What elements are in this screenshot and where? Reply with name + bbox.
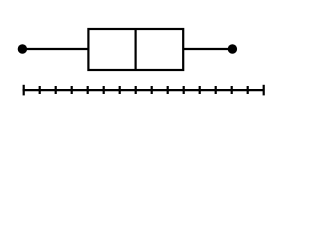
tick 15 (247, 86, 249, 94)
tick 13 (215, 86, 217, 94)
tick 11 (183, 86, 185, 94)
tick 6 (103, 86, 105, 94)
tick 14 (231, 86, 233, 94)
median line (135, 29, 137, 70)
right whisker line (183, 48, 232, 50)
left whisker line (22, 48, 88, 50)
left whisker dot (minimum) (18, 44, 27, 53)
right whisker dot (maximum) (228, 44, 237, 53)
tick 5 (87, 86, 89, 94)
tick 8 (135, 86, 137, 94)
tick 4 (71, 86, 73, 94)
box (Q1 to Q3) (88, 29, 183, 70)
number line axis (23, 89, 265, 91)
tick 10 (167, 86, 169, 94)
left end tick (23, 85, 25, 96)
tick 9 (151, 86, 153, 94)
right end tick (263, 85, 265, 96)
tick 12 (199, 86, 201, 94)
tick 2 (39, 86, 41, 94)
tick 3 (55, 86, 57, 94)
tick 7 (119, 86, 121, 94)
